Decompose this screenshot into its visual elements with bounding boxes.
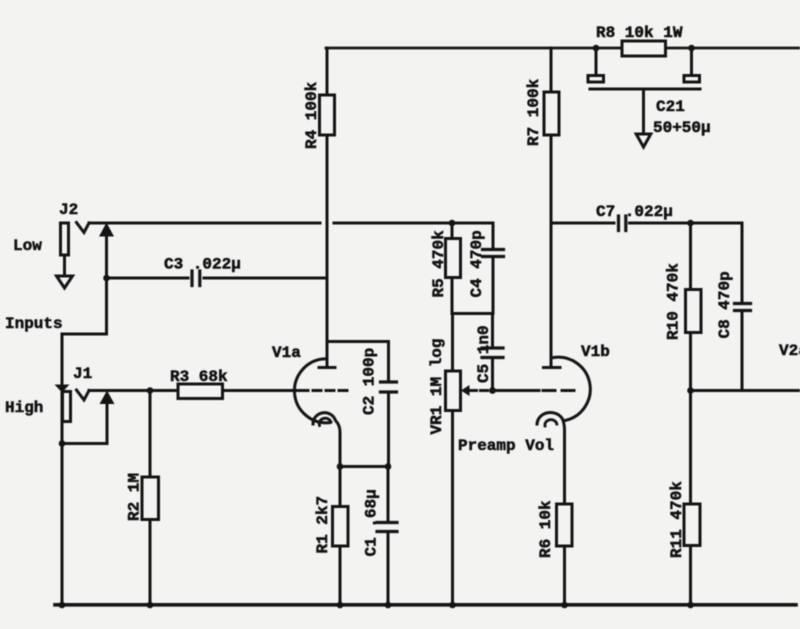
junction dot R2 [147,387,154,394]
resistor R5 470k [430,223,461,314]
capacitor C21 50+50u (can cap with chassis arrow) [588,51,711,147]
wire: over to C8 [691,223,743,303]
svg-text:Low: Low [13,237,42,255]
wire: R3 to V1a grid [223,389,309,392]
svg-text:R4 100k: R4 100k [303,81,321,149]
capacitor C7 .022u [596,203,673,231]
capacitor C5 1n0 [475,314,503,391]
envelope arc [294,359,330,423]
junction dot cathode/R1 [337,463,344,470]
junction dot C3 tap [103,275,110,282]
svg-text:C4 470p: C4 470p [468,230,486,297]
wire: J2 tip down to C3 tap and step to J1 [62,235,107,385]
tip switch chevron [77,223,90,233]
resistor R8 10k 1W [596,24,683,56]
junction dot output node [687,387,694,394]
wire: anode jog to C2 [327,340,389,343]
wire: J1 tip to R3 [89,389,178,392]
svg-text:J1: J1 [73,365,92,383]
svg-text:Preamp Vol: Preamp Vol [458,437,554,455]
resistor R2 1M [126,391,159,605]
svg-text:V1a: V1a [272,344,301,362]
wire: wiper to V1b grid [470,389,490,392]
svg-text:J2: J2 [59,201,78,219]
jack J2 (Low input) [57,201,90,288]
svg-text:R2 1M: R2 1M [126,473,144,521]
wire: C7 coupling wire from R7/V1b anode node [551,222,614,225]
svg-text:R3 68k: R3 68k [170,368,228,386]
grid dashed line [313,389,352,392]
resistor R6 10k [537,500,572,605]
junction dots on ground rail [59,602,66,609]
svg-text:C21: C21 [656,98,685,116]
svg-text:R1 2k7: R1 2k7 [314,496,332,554]
junction dot C7 / R10 [687,220,694,227]
resistor R7 100k [525,48,559,368]
capacitor C1 .68u [363,467,398,605]
svg-text:VR1 1M log: VR1 1M log [428,338,446,434]
svg-text:R11 470k: R11 470k [668,481,686,558]
anode plate bar [319,366,335,369]
svg-text:C8 470p: C8 470p [716,271,734,338]
svg-text:Inputs: Inputs [5,315,63,333]
svg-text:R8 10k 1W: R8 10k 1W [596,24,683,42]
svg-text:50+50µ: 50+50µ [653,119,711,137]
junction dot rail / R8 right [688,45,695,52]
input arrow at J1 tip [100,391,115,405]
cathode curl [537,412,565,504]
capacitor C2 100p [361,342,397,467]
tube V1a [272,344,352,467]
resistor R3 68k [170,368,228,399]
svg-text:High: High [5,399,43,417]
junction dot C5/wiper [489,387,496,394]
wire: B+ supply rail [326,47,800,50]
tip switch chevron [77,390,90,400]
svg-text:C2 100p: C2 100p [361,348,379,415]
svg-text:C3 .022µ: C3 .022µ [164,256,241,274]
wire: J2 tip wire (crosses R4 column with break) [89,222,320,225]
potentiometer VR1 1M log [428,314,470,605]
svg-text:C7 .022µ: C7 .022µ [596,203,673,221]
wire: V1a cathode node [340,465,388,468]
junction dot R5 top [449,220,456,227]
svg-text:V1b: V1b [581,343,610,361]
svg-text:V2a: V2a [779,342,800,360]
wire: R5/C4 bottom node [452,312,493,315]
resistor R4 100k [303,48,335,368]
cathode curl [313,413,340,467]
anode plate bar [544,366,561,369]
svg-text:C5 1n0: C5 1n0 [475,325,493,383]
junction dot rail / R8 left [593,45,600,52]
input arrow at J2 tip [99,223,114,237]
jack J1 (High input) [55,365,93,605]
resistor R10 470k [665,223,702,391]
wire: J1 arrow down and jog to jack sleeve [62,402,107,444]
resistor R1 2k7 [314,467,348,605]
wire: C7 to R10/C8 node [630,222,691,225]
envelope arc [554,357,590,420]
svg-text:R5 470k: R5 470k [430,230,448,298]
capacitor C8 470p [716,271,751,390]
svg-text:R10 470k: R10 470k [665,263,683,340]
junction dot cathode/C1 [385,463,392,470]
tube V1b [537,343,610,504]
svg-text:R6 10k: R6 10k [537,500,555,558]
grid dashed line [543,389,576,392]
resistor R11 470k [668,391,700,605]
ground rail [55,603,796,607]
svg-text:C1 .68µ: C1 .68µ [363,489,381,556]
junction dot J1 sleeve [59,440,66,447]
svg-text:R7 100k: R7 100k [525,78,543,146]
wire: output to V2 grid [691,389,800,392]
capacitor C4 470p [468,223,504,314]
capacitor C3 .022u [107,256,328,286]
